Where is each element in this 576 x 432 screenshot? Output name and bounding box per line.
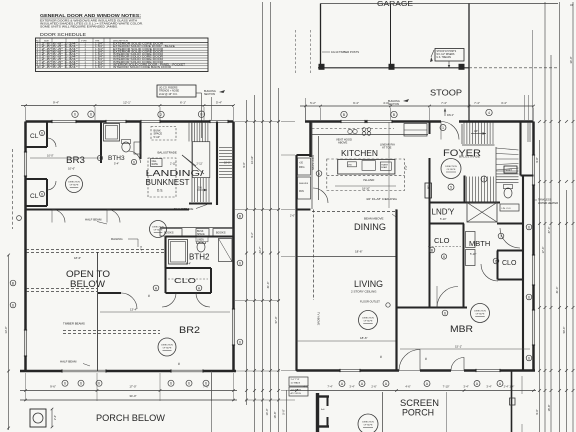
svg-text:BTH2: BTH2 [189, 253, 210, 262]
svg-text:CLO: CLO [434, 236, 450, 245]
svg-text:3'-4": 3'-4" [463, 385, 468, 389]
svg-text:7'-4": 7'-4" [327, 385, 332, 389]
bottom dims right plan [339, 381, 345, 387]
left edge dimension line [8, 255, 10, 430]
svg-text:3'-4": 3'-4" [486, 385, 491, 389]
svg-text:PAN: PAN [299, 190, 304, 193]
svg-text:2: 2 [160, 113, 162, 117]
svg-text:#: # [425, 357, 427, 361]
lower stair flight [464, 176, 466, 203]
svg-text:10'-6": 10'-6" [68, 167, 75, 171]
direction note circle [158, 338, 176, 356]
svg-text:BUNK: BUNK [197, 231, 204, 233]
svg-text:2'-6": 2'-6" [371, 385, 376, 389]
extension lines between plans [235, 121, 280, 123]
dining [313, 210, 315, 301]
svg-text:UP: UP [474, 129, 478, 133]
svg-text:B: B [343, 113, 345, 117]
svg-text:3'-4": 3'-4" [501, 101, 507, 105]
svg-text:6: 6 [528, 225, 530, 229]
svg-text:DIRECTION: DIRECTION [161, 345, 173, 347]
svg-text:OF SLPE: OF SLPE [476, 314, 485, 316]
direction note circle [66, 176, 83, 193]
svg-text:16'-8": 16'-8" [273, 412, 277, 419]
svg-text:OF SLPE: OF SLPE [364, 425, 373, 427]
svg-text:DN: DN [198, 186, 202, 190]
winder treads [496, 148, 519, 150]
BR2 door arc [121, 293, 137, 309]
svg-text:NO.: NO. [36, 41, 40, 43]
svg-text:34'-0": 34'-0" [129, 394, 136, 398]
timber posts [319, 64, 324, 69]
svg-text:DIRECTION: DIRECTION [362, 318, 374, 320]
svg-text:13'-4": 13'-4" [130, 308, 137, 312]
svg-text:MBR: MBR [450, 324, 473, 335]
svg-text:BOOKS: BOOKS [164, 231, 174, 235]
svg-text:#: # [178, 362, 180, 366]
direction note circle [471, 304, 490, 323]
svg-text:BUNKNEST: BUNKNEST [146, 178, 190, 187]
stoop note box [435, 49, 464, 62]
svg-text:6: 6 [41, 131, 43, 135]
svg-text:5'-10": 5'-10" [470, 253, 476, 256]
svg-text:SCREEN: SCREEN [400, 398, 439, 408]
BTH3 [100, 122, 102, 164]
svg-text:RFG: RFG [299, 165, 304, 169]
svg-text:34': 34' [570, 3, 574, 7]
svg-text:7'-4": 7'-4" [441, 101, 447, 105]
svg-text:6: 6 [12, 303, 14, 307]
svg-text:6: 6 [188, 382, 190, 386]
svg-text:41'-4": 41'-4" [555, 287, 559, 294]
svg-text:AT TOE: AT TOE [382, 146, 392, 150]
svg-text:9'-0": 9'-0" [535, 409, 539, 414]
svg-text:TYPE: TYPE [81, 41, 87, 43]
svg-text:B: B [12, 281, 14, 285]
svg-text:18'-6": 18'-6" [360, 336, 368, 340]
svg-text:1/2 WADS: 1/2 WADS [291, 382, 301, 385]
svg-text:AT PORCH: AT PORCH [291, 392, 302, 395]
svg-text:7'-2": 7'-2" [405, 165, 408, 170]
svg-text:6: 6 [170, 382, 172, 386]
svg-text:BEAM ABOVE: BEAM ABOVE [364, 217, 384, 221]
svg-text:DESCRIPTION: DESCRIPTION [113, 41, 128, 43]
svg-text:6: 6 [64, 382, 66, 386]
svg-text:BR2: BR2 [179, 325, 200, 335]
linen box [500, 204, 519, 211]
svg-text:2 STORY CEILING: 2 STORY CEILING [351, 290, 377, 294]
svg-text:3'-4": 3'-4" [349, 385, 354, 389]
svg-text:THK: THK [95, 41, 100, 43]
closet CL top-left [46, 122, 48, 148]
svg-text:CLO: CLO [502, 260, 517, 267]
svg-text:BTH3: BTH3 [108, 155, 125, 162]
svg-text:DOOR SCHEDULE: DOOR SCHEDULE [40, 32, 86, 38]
right plan top dimension line [300, 105, 534, 107]
svg-text:LANDING/: LANDING/ [146, 168, 205, 178]
svg-text:14'-0": 14'-0" [265, 409, 269, 416]
CLO left plan [165, 268, 167, 293]
hall/mbr wall [397, 306, 468, 308]
right vertical dimension lines [524, 95, 526, 120]
svg-text:9'-0": 9'-0" [242, 162, 246, 167]
svg-text:PORCH: PORCH [402, 408, 434, 418]
svg-text:OPEN TO: OPEN TO [66, 269, 110, 279]
svg-text:5'-4": 5'-4" [114, 162, 119, 166]
svg-text:BELOW: BELOW [70, 279, 106, 289]
svg-text:10'-0": 10'-0" [224, 162, 230, 165]
svg-text:PORCH BELOW: PORCH BELOW [96, 413, 166, 423]
svg-text:B: B [239, 214, 241, 218]
hall wall kitchen/foyer [429, 122, 431, 135]
svg-text:5'-10": 5'-10" [154, 135, 161, 139]
svg-text:6: 6 [80, 382, 82, 386]
svg-text:SOFT: SOFT [506, 169, 513, 172]
pantry [298, 158, 311, 175]
svg-text:18'-6": 18'-6" [355, 250, 363, 254]
svg-text:BALUSTRADE: BALUSTRADE [158, 151, 177, 155]
svg-text:SPACE: SPACE [154, 132, 163, 136]
svg-text:47'-4": 47'-4" [547, 227, 551, 234]
DN arrow [197, 189, 207, 191]
svg-text:2'-11": 2'-11" [197, 163, 203, 166]
stair shaft [216, 122, 218, 206]
porch left post [316, 393, 319, 432]
direction note circle [359, 311, 378, 330]
svg-text:DIRECTION: DIRECTION [474, 311, 486, 313]
svg-text:OF SLPE: OF SLPE [163, 348, 172, 350]
UP arrow [471, 133, 486, 135]
svg-text:6: 6 [318, 172, 320, 176]
svg-text:5'-2": 5'-2" [310, 101, 316, 105]
svg-text:SPACE: SPACE [197, 233, 205, 236]
svg-text:6: 6 [528, 356, 530, 360]
svg-text:5'-4": 5'-4" [186, 263, 191, 266]
svg-text:HALF BEAM: HALF BEAM [85, 218, 102, 222]
svg-text:41'-4": 41'-4" [266, 282, 270, 289]
svg-text:6: 6 [444, 311, 446, 315]
svg-text:LND'Y: LND'Y [432, 208, 456, 217]
svg-text:6: 6 [41, 192, 43, 196]
open to below [26, 249, 165, 251]
svg-text:6: 6 [443, 255, 445, 259]
svg-text:B: B [431, 248, 433, 252]
svg-text:WATER HEATER: WATER HEATER [538, 201, 558, 205]
svg-text:10' FLAT CEILING: 10' FLAT CEILING [366, 197, 398, 201]
svg-text:6'-1": 6'-1" [180, 101, 186, 105]
svg-text:BARN DOOR: BARN DOOR [312, 155, 315, 170]
svg-text:BALUSTRADE: BALUSTRADE [174, 207, 193, 211]
svg-text:17'-0": 17'-0" [129, 385, 136, 389]
svg-text:DIRECTION: DIRECTION [362, 422, 374, 424]
svg-text:9'-4": 9'-4" [53, 101, 59, 105]
central vertical dimension lines [246, 100, 248, 405]
porch right wall [511, 371, 513, 432]
svg-text:SOME UNITS WILL REQUIRE EXPAND: SOME UNITS WILL REQUIRE EXPANDED JAMBS. [40, 25, 118, 29]
svg-text:2'-11": 2'-11" [170, 163, 176, 166]
svg-text:SECTION: SECTION [388, 103, 399, 106]
island [327, 159, 405, 191]
svg-text:DRAW: DRAW [381, 166, 387, 169]
svg-text:1 3/4": 1 3/4" [95, 66, 103, 69]
svg-text:7'-6": 7'-6" [203, 385, 209, 389]
svg-text:GARAGE: GARAGE [377, 0, 413, 8]
svg-text:DN 4": DN 4" [447, 113, 454, 117]
svg-text:6: 6 [239, 261, 241, 265]
svg-text:6: 6 [239, 340, 241, 344]
svg-text:9'-6": 9'-6" [50, 385, 56, 389]
kitchen counters [312, 128, 394, 130]
svg-text:BR3: BR3 [66, 155, 85, 165]
svg-text:STOOP: STOOP [430, 88, 462, 98]
svg-text:OF SLPE: OF SLPE [364, 321, 373, 323]
svg-text:CAB: CAB [426, 185, 429, 190]
svg-text:2x12 @ 16" O.C.: 2x12 @ 16" O.C. [159, 93, 178, 96]
svg-text:OF SLPE: OF SLPE [154, 230, 163, 232]
svg-text:#: # [148, 294, 150, 298]
svg-text:2'-4" 1'-4": 2'-4" 1'-4" [504, 386, 515, 389]
svg-text:DINING: DINING [354, 222, 386, 232]
svg-text:TIMBER BEAMS: TIMBER BEAMS [63, 322, 85, 326]
svg-text:CL: CL [30, 193, 39, 200]
svg-text:15'-1": 15'-1" [455, 345, 462, 349]
direction note circle [358, 414, 378, 432]
svg-text:4'-6": 4'-6" [405, 385, 410, 389]
window tags top [72, 111, 78, 117]
left tiny note boxes [289, 377, 308, 386]
svg-text:OF SLPE: OF SLPE [447, 169, 456, 171]
closet CL mid-left [26, 178, 48, 180]
svg-text:B: B [393, 113, 395, 117]
svg-text:6: 6 [74, 113, 76, 117]
hall wall below BR3 [26, 208, 190, 210]
svg-text:1/2" WADS: 1/2" WADS [291, 388, 302, 391]
svg-text:LINEN: LINEN [197, 240, 204, 242]
right plan outer walls [305, 120, 534, 123]
mbth toilet [504, 188, 512, 198]
svg-text:SECTION: SECTION [204, 93, 215, 96]
stairs right plan [461, 124, 463, 144]
svg-text:ISLAND: ISLAND [363, 178, 375, 182]
svg-text:STOOP AT POSTS: STOOP AT POSTS [437, 50, 457, 53]
svg-text:FLOOR OUTLET: FLOOR OUTLET [360, 300, 380, 304]
svg-text:2'-8" 6'-8" 1-3/4": 2'-8" 6'-8" 1-3/4" [42, 66, 78, 69]
svg-text:5: 5 [450, 185, 452, 189]
svg-text:2'-6": 2'-6" [290, 215, 295, 218]
svg-text:SHELVES: SHELVES [299, 183, 309, 185]
svg-text:U.S. TREADS: U.S. TREADS [437, 56, 452, 59]
svg-text:INTERIOR SOLID CORE BARN DOOR: INTERIOR SOLID CORE BARN DOOR [113, 66, 171, 69]
svg-text:CL: CL [30, 133, 39, 140]
svg-text:1: 1 [442, 126, 444, 130]
svg-text:9'-8": 9'-8" [535, 157, 539, 162]
svg-text:57'-0": 57'-0" [274, 317, 278, 324]
svg-text:KITCHEN: KITCHEN [341, 148, 378, 158]
right plan windows [341, 120, 365, 123]
laundry [430, 201, 501, 203]
svg-text:SIZE: SIZE [44, 41, 49, 43]
svg-text:DIRECTION: DIRECTION [68, 182, 80, 184]
svg-text:2: 2 [483, 177, 485, 181]
svg-text:6: 6 [98, 382, 100, 386]
left plan bottom dims [62, 380, 68, 386]
svg-text:LIN. CLO: LIN. CLO [502, 208, 511, 210]
svg-text:4: 4 [488, 111, 490, 115]
svg-text:MBTH: MBTH [469, 239, 490, 248]
left plan top dimension line [21, 105, 234, 107]
closet wall [522, 176, 524, 371]
svg-text:#: # [380, 355, 382, 359]
svg-text:9'-4": 9'-4" [353, 101, 359, 105]
svg-text:TV ABOVE: TV ABOVE [317, 312, 321, 325]
svg-text:BALUSTRADE: BALUSTRADE [459, 155, 480, 159]
stair note box [157, 85, 196, 97]
svg-text:ABOVE: ABOVE [338, 141, 347, 145]
svg-text:7'-10": 7'-10" [443, 385, 450, 389]
svg-text:7'-4": 7'-4" [474, 101, 480, 105]
svg-text:D.S.: D.S. [157, 189, 163, 193]
svg-text:3'-1": 3'-1" [139, 246, 142, 251]
svg-text:6: 6 [528, 295, 530, 299]
svg-text:5'-0": 5'-0" [282, 409, 286, 414]
svg-text:10x10 TIMBER POSTS: 10x10 TIMBER POSTS [331, 50, 359, 54]
left plan outer walls [26, 120, 234, 123]
svg-text:2'-4": 2'-4" [54, 415, 57, 420]
svg-text:6: 6 [90, 113, 92, 117]
svg-text:BOOKS: BOOKS [216, 231, 226, 235]
svg-text:HALF BEAM: HALF BEAM [60, 360, 77, 364]
svg-text:RAILING: RAILING [111, 237, 123, 241]
svg-text:LIVING: LIVING [354, 279, 383, 289]
BTH2 [166, 235, 234, 237]
svg-text:OF SLPE: OF SLPE [70, 185, 79, 187]
svg-text:13'-10": 13'-10" [250, 156, 254, 164]
svg-text:16'-8": 16'-8" [547, 405, 551, 412]
svg-text:18'-10": 18'-10" [362, 187, 370, 191]
books shelves row [160, 227, 233, 229]
svg-text:18'-6": 18'-6" [74, 256, 81, 260]
svg-text:50'-4": 50'-4" [562, 327, 566, 334]
svg-text:23'-7": 23'-7" [258, 247, 262, 254]
svg-text:6: 6 [133, 160, 135, 164]
direction note circle [441, 159, 461, 179]
svg-text:RATE: RATE [152, 163, 159, 166]
svg-text:17'-4": 17'-4" [541, 247, 545, 254]
windows on left plan walls [52, 120, 76, 123]
door schedule table [36, 38, 209, 72]
svg-text:10'-0": 10'-0" [47, 154, 54, 158]
svg-text:12'-1": 12'-1" [123, 101, 131, 105]
svg-text:5'-4": 5'-4" [216, 101, 222, 105]
svg-text:1'-0" TYP: 1'-0" TYP [291, 379, 300, 381]
direction note circle [150, 221, 167, 238]
svg-text:DIRECTION: DIRECTION [445, 166, 457, 168]
svg-text:34'-0": 34'-0" [569, 57, 573, 64]
svg-text:5'-10": 5'-10" [440, 218, 446, 221]
svg-text:13'-0": 13'-0" [4, 326, 8, 333]
svg-text:9'-2": 9'-2" [250, 232, 254, 237]
svg-text:W 1 1/2" RISERS: W 1 1/2" RISERS [437, 54, 455, 56]
